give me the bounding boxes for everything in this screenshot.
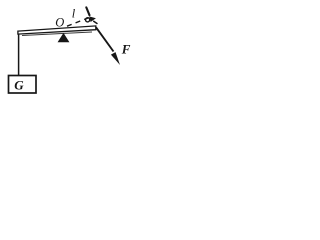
line of action dash upper xyxy=(86,7,89,15)
line of action dash lower xyxy=(94,21,97,23)
force F line xyxy=(96,27,114,51)
fulcrum triangle xyxy=(58,34,68,42)
svg-text:F: F xyxy=(121,42,131,57)
lever bar xyxy=(18,26,96,34)
dashed arrowhead xyxy=(89,16,96,22)
svg-text:l: l xyxy=(72,6,76,20)
force F arrowhead xyxy=(111,52,120,65)
dashed arrowhead loop xyxy=(86,18,90,22)
rod wire xyxy=(18,33,20,76)
background xyxy=(0,0,137,105)
svg-text:O: O xyxy=(55,15,64,29)
bar lower shadow line xyxy=(22,32,92,36)
moment arm dashed line xyxy=(67,17,91,26)
weight box G xyxy=(9,76,37,94)
svg-text:G: G xyxy=(14,77,24,92)
